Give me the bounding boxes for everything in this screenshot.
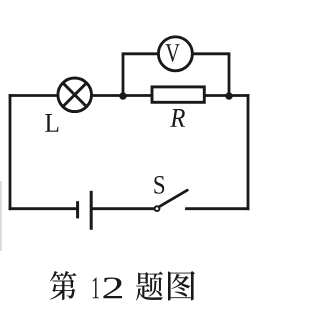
caption digit 1: [93, 278, 99, 299]
wire top-left segment: [10, 94, 58, 97]
node left junction dot: [119, 92, 126, 99]
resistor R body: [152, 87, 204, 102]
voltmeter V letter: [166, 44, 180, 62]
wire bottom right segment: [187, 207, 249, 210]
switch S pivot circle: [155, 206, 160, 211]
caption char 图: [168, 271, 195, 301]
wire lamp to left node: [92, 94, 151, 97]
switch S blade: [160, 190, 188, 206]
wire resistor to top-right corner: [206, 94, 248, 97]
wire left vertical: [9, 96, 12, 209]
wire bottom left segment: [10, 207, 77, 210]
wire voltmeter branch left riser: [123, 54, 157, 96]
caption char 第: [50, 271, 77, 300]
wire right vertical: [247, 96, 250, 209]
lamp cross stroke 2: [63, 83, 86, 106]
caption digit 2: [103, 277, 122, 298]
battery negative short plate: [76, 201, 79, 218]
label S switch: [154, 176, 164, 194]
voltmeter V circle: [158, 37, 192, 71]
caption char 题: [136, 271, 163, 300]
lamp L circle: [58, 78, 92, 112]
lamp cross stroke 1: [63, 83, 86, 106]
node right junction dot: [225, 92, 232, 99]
wire voltmeter branch right riser: [194, 54, 229, 96]
label R resistor: [170, 109, 185, 127]
label L lamp: [45, 114, 58, 132]
wire battery to switch: [92, 207, 155, 210]
battery positive long plate: [90, 191, 93, 230]
